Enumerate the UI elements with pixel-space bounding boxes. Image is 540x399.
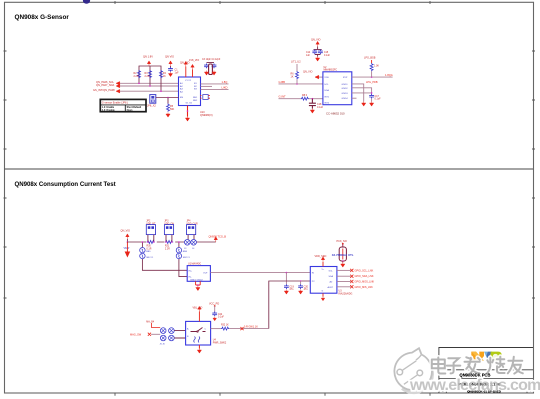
svg-text:PWR_SW02: PWR_SW02 bbox=[213, 341, 227, 344]
wire pwr to cap bbox=[170, 66, 172, 67]
resistor block RB1 bbox=[203, 95, 208, 100]
junction EN/R5 bbox=[167, 97, 169, 99]
svg-text:C15: C15 bbox=[324, 52, 329, 54]
wire power to rail bbox=[126, 239, 128, 242]
svg-text:1.8Q: 1.8Q bbox=[222, 80, 228, 84]
svg-text:47n: 47n bbox=[304, 288, 309, 291]
table G-Sensor enable bbox=[100, 99, 146, 111]
wire U2 GND1 bbox=[352, 84, 364, 102]
net arrow SDA bbox=[116, 84, 120, 88]
svg-text:QN 1.8V: QN 1.8V bbox=[143, 55, 153, 59]
wire U3 ALERT bbox=[337, 286, 351, 288]
ground under U4 bbox=[197, 349, 201, 354]
power QN_VIO cap branch bbox=[169, 61, 172, 66]
svg-text:LPG_PDB: LPG_PDB bbox=[366, 81, 378, 84]
svg-text:MMA8652FC: MMA8652FC bbox=[324, 69, 338, 72]
svg-text:G-sensor Enable (JP8 ): G-sensor Enable (JP8 ) bbox=[102, 102, 128, 105]
svg-text:U2: U2 bbox=[324, 67, 328, 69]
wire INT bbox=[120, 90, 179, 92]
test loop J6 bbox=[176, 253, 181, 258]
capacitor C1 bbox=[168, 67, 173, 72]
svg-text:0.1uF: 0.1uF bbox=[218, 317, 224, 319]
resistor R8 bbox=[301, 97, 309, 100]
svg-text:QN_VIO: QN_VIO bbox=[180, 62, 190, 65]
svg-text:0.1uF: 0.1uF bbox=[317, 106, 324, 109]
svg-text:PV: PV bbox=[312, 281, 315, 283]
power VBAT_NO above U4 bbox=[198, 312, 200, 322]
watermark logo circle bbox=[394, 348, 432, 390]
svg-text:QN908x G-Sensor: QN908x G-Sensor bbox=[15, 14, 70, 21]
svg-text:1uF: 1uF bbox=[175, 72, 180, 75]
svg-text:SDA: SDA bbox=[324, 89, 329, 92]
pull-up rail wire bbox=[139, 66, 161, 91]
rail wire bbox=[127, 241, 215, 243]
wire second input to U3 bbox=[269, 281, 311, 329]
crystal Y1 with load caps bbox=[207, 62, 215, 64]
svg-text:GND2: GND2 bbox=[342, 88, 349, 90]
svg-text:SCL: SCL bbox=[324, 84, 329, 86]
svg-text:1V8_VIO: 1V8_VIO bbox=[189, 59, 199, 62]
svg-text:0.1uF: 0.1uF bbox=[375, 98, 382, 101]
svg-text:A4: A4 bbox=[180, 90, 183, 93]
resistor R2 bbox=[138, 70, 141, 78]
svg-text:R8 0: R8 0 bbox=[302, 94, 308, 97]
svg-text:R30: R30 bbox=[147, 246, 152, 248]
ground under C1 bbox=[168, 72, 172, 77]
svg-text:Short:Default: Short:Default bbox=[127, 106, 142, 109]
svg-text:G1 G2: G1 G2 bbox=[186, 103, 193, 105]
ground under C22 bbox=[213, 317, 217, 321]
svg-text:J5 J6: J5 J6 bbox=[160, 343, 166, 345]
svg-text:2.2K: 2.2K bbox=[145, 75, 150, 78]
svg-text:2-3: Disable: 2-3: Disable bbox=[102, 110, 116, 112]
svg-text:0.1R: 0.1R bbox=[147, 248, 152, 250]
ground under crystal caps bbox=[204, 71, 208, 76]
purple dot artifact top edge bbox=[83, 0, 90, 4]
svg-text:J3: J3 bbox=[184, 248, 187, 250]
svg-text:1K: 1K bbox=[291, 76, 294, 79]
svg-text:1-2: Enable: 1-2: Enable bbox=[102, 107, 115, 109]
svg-text:RB5: RB5 bbox=[146, 251, 151, 253]
wire IC right B2 bbox=[201, 85, 213, 87]
svg-text:GND1 GND2: GND1 GND2 bbox=[190, 280, 204, 282]
wires jacks to U4 bbox=[174, 331, 185, 338]
watermark glyph zi bbox=[447, 358, 461, 373]
svg-text:QN_VIO: QN_VIO bbox=[311, 39, 321, 42]
jack J7 bbox=[160, 335, 166, 341]
capacitor C17 bbox=[369, 94, 374, 99]
frame zone tick marks top bbox=[115, 1, 430, 4]
wire IC right B3 bbox=[201, 88, 229, 90]
svg-text:Open: Open bbox=[127, 110, 133, 112]
svg-text:B2: B2 bbox=[194, 86, 197, 88]
junction C19 bbox=[286, 272, 288, 274]
svg-text:MA_B4: MA_B4 bbox=[146, 320, 155, 323]
svg-text:R32 1K: R32 1K bbox=[221, 325, 229, 327]
svg-text:SCL: SCL bbox=[329, 270, 334, 272]
wire R32 to X bbox=[229, 328, 268, 330]
svg-text:A1: A1 bbox=[180, 82, 183, 85]
ground under GND1 bbox=[362, 102, 366, 107]
IC U10 bottom ground stem bbox=[187, 106, 189, 117]
svg-text:QN908 TCG_B: QN908 TCG_B bbox=[209, 234, 227, 238]
svg-text:VBAT: VBAT bbox=[124, 247, 131, 250]
svg-text:OUT: OUT bbox=[203, 273, 208, 275]
svg-text:1uF: 1uF bbox=[306, 55, 311, 57]
resistor R4 bbox=[160, 70, 163, 78]
title block row line 2 bbox=[439, 377, 533, 379]
svg-text:C: C bbox=[205, 329, 207, 331]
watermark logo node circle 2 bbox=[417, 370, 423, 376]
svg-text:QN_PA07_SDA: QN_PA07_SDA bbox=[96, 83, 115, 87]
resistor R31 on rail bbox=[165, 241, 173, 244]
svg-text:VCC_PD: VCC_PD bbox=[209, 302, 219, 305]
svg-text:RE1: RE1 bbox=[193, 97, 198, 99]
ground under C14 C15 bbox=[316, 57, 320, 62]
svg-text:IN-: IN- bbox=[189, 277, 192, 279]
svg-text:VDD: VDD bbox=[324, 77, 329, 79]
svg-text:56K: 56K bbox=[170, 108, 175, 111]
capacitor C22 bbox=[212, 312, 217, 317]
switch symbol inside U4 bbox=[191, 328, 206, 332]
svg-text:QN VIO: QN VIO bbox=[165, 55, 174, 59]
IC U4 power switch bbox=[186, 321, 211, 345]
jack J8 bbox=[169, 335, 175, 341]
svg-text:0.R GW1.1K: 0.R GW1.1K bbox=[244, 325, 258, 328]
svg-text:GND4: GND4 bbox=[342, 98, 349, 100]
svg-text:QN908x Consumption Current Tes: QN908x Consumption Current Test bbox=[15, 181, 116, 188]
jumper JP8 bbox=[150, 95, 156, 104]
watermark glyph dian bbox=[432, 358, 446, 374]
svg-text:www.elecfans.com: www.elecfans.com bbox=[409, 377, 540, 394]
wire R8 to U2 bbox=[309, 98, 323, 100]
jack J5 bbox=[160, 328, 166, 334]
svg-text:C22: C22 bbox=[218, 314, 223, 316]
svg-text:A: A bbox=[187, 328, 189, 331]
svg-text:INT2: INT2 bbox=[324, 102, 330, 104]
junction SDA/R3 bbox=[149, 85, 151, 87]
IC U4 bottom ground bbox=[198, 345, 200, 349]
NXP logo X blue bbox=[484, 352, 492, 361]
current jack J3 bbox=[185, 240, 191, 246]
svg-text:VBL_NO: VBL_NO bbox=[193, 306, 203, 309]
svg-text:RB6: RB6 bbox=[183, 251, 188, 253]
IC U1 current sense amp bbox=[187, 266, 210, 282]
capacitor C14 bbox=[314, 49, 322, 51]
svg-text:SDA: SDA bbox=[329, 275, 334, 278]
svg-text:A0: A0 bbox=[330, 281, 333, 284]
frame zone tick marks left bbox=[4, 51, 7, 298]
wire chain2 from rail bbox=[179, 242, 187, 277]
jack J6 bbox=[169, 328, 175, 334]
svg-text:1.0K: 1.0K bbox=[374, 65, 379, 68]
svg-text:32.768KHZ XTL: 32.768KHZ XTL bbox=[332, 253, 354, 257]
svg-text:G.BB: G.BB bbox=[279, 80, 286, 84]
frame zone tick marks right bbox=[532, 51, 535, 298]
svg-text:QN9080(X): QN9080(X) bbox=[200, 114, 213, 117]
watermark logo node circle 1 bbox=[397, 369, 403, 375]
svg-text:V+: V+ bbox=[322, 269, 325, 271]
svg-text:SRC#1: SRC#1 bbox=[183, 257, 191, 259]
power QN_VIO decoupling bbox=[316, 41, 319, 46]
svg-text:GND3: GND3 bbox=[342, 93, 349, 95]
svg-text:EN: EN bbox=[180, 97, 183, 99]
svg-text:JP8_X2: JP8_X2 bbox=[147, 105, 156, 108]
power VDD_SEN above U3 bbox=[322, 262, 324, 267]
svg-text:INT1: INT1 bbox=[324, 97, 330, 99]
svg-text:GND1: GND1 bbox=[342, 84, 349, 86]
wire SDA bbox=[120, 85, 179, 87]
NXP logo N orange bbox=[471, 352, 484, 361]
svg-text:LPG_BSB: LPG_BSB bbox=[364, 57, 376, 60]
svg-text:2.2K: 2.2K bbox=[134, 75, 139, 78]
watermark logo link line 2 bbox=[404, 375, 417, 384]
svg-text:0.1uF: 0.1uF bbox=[324, 55, 330, 57]
NXP logo P green bbox=[491, 352, 502, 361]
power QN_1V8 above IC pin V2 bbox=[192, 70, 194, 78]
svg-text:LIT1_U2: LIT1_U2 bbox=[291, 61, 301, 64]
svg-text:A3: A3 bbox=[180, 88, 183, 91]
svg-text:MAG_SW: MAG_SW bbox=[130, 333, 142, 336]
svg-text:GPIO_MIS_LNK: GPIO_MIS_LNK bbox=[355, 286, 374, 289]
wire SCL bbox=[120, 82, 179, 84]
IC U2 MMA8652 bbox=[323, 72, 352, 105]
svg-text:B: B bbox=[187, 336, 189, 338]
resistor R5 bbox=[167, 98, 169, 104]
title block vertical divider size bbox=[445, 387, 447, 393]
svg-text:IN: IN bbox=[312, 273, 315, 275]
resistor R30 on rail bbox=[147, 241, 155, 244]
wire MAG_SW to jacks bbox=[151, 333, 160, 335]
svg-text:PCK_NO: PCK_NO bbox=[337, 240, 347, 243]
IC U3 ADC bbox=[310, 267, 337, 294]
svg-text:QN_VIO: QN_VIO bbox=[303, 70, 313, 73]
ground under C19 bbox=[284, 290, 288, 295]
watermark glyphs bbox=[432, 357, 523, 374]
wire JP8 to EN pin bbox=[156, 97, 179, 99]
wire U2 GND2 bbox=[352, 88, 372, 94]
wire U3 SCL bbox=[337, 269, 351, 271]
svg-text:2.2R: 2.2R bbox=[165, 248, 170, 250]
junction C20 bbox=[300, 280, 302, 282]
svg-text:GPIO_MOS_LNK: GPIO_MOS_LNK bbox=[355, 281, 375, 284]
junction INT/R4 bbox=[160, 90, 162, 92]
junction C18 bbox=[312, 98, 314, 100]
wire U2 GND3 bbox=[352, 92, 372, 94]
svg-text:A2: A2 bbox=[180, 85, 183, 88]
svg-text:G: G bbox=[322, 291, 324, 293]
title block vertical divider rev bbox=[526, 387, 528, 393]
svg-text:SRC#1: SRC#1 bbox=[146, 257, 154, 259]
capacitor C18 polarized bbox=[309, 99, 316, 109]
watermark glyph fa bbox=[465, 357, 480, 373]
capacitor C19 bbox=[285, 273, 287, 285]
svg-text:VDD_SEN: VDD_SEN bbox=[315, 255, 327, 258]
crystal Y2 bbox=[339, 247, 346, 261]
wire U3 A0 bbox=[337, 281, 351, 283]
wire chain1 from rail bbox=[142, 242, 187, 270]
svg-text:INA226AIDG: INA226AIDG bbox=[339, 292, 353, 295]
ground under C18 bbox=[310, 109, 314, 114]
svg-text:V1 V2: V1 V2 bbox=[185, 80, 192, 82]
ground under crystal Y2 bbox=[341, 263, 345, 268]
watermark logo link line 1 bbox=[402, 361, 416, 371]
svg-text:1K: 1K bbox=[163, 75, 166, 78]
svg-text:1.8QA: 1.8QA bbox=[385, 73, 393, 77]
svg-text:RE2: RE2 bbox=[193, 100, 198, 102]
watermark logo circle shadow bbox=[402, 360, 432, 393]
junction rail left bbox=[127, 241, 129, 243]
power QN_VIO above IC pin V1 bbox=[185, 67, 187, 78]
svg-text:J4: J4 bbox=[192, 248, 195, 250]
svg-text:GS_INT/QN_PA08: GS_INT/QN_PA08 bbox=[93, 88, 115, 92]
svg-text:47n: 47n bbox=[289, 288, 294, 291]
IC U10 QN9080 bbox=[179, 77, 201, 106]
junction R6/SCL bbox=[296, 83, 298, 85]
svg-text:C3 12pF C4 12pF: C3 12pF C4 12pF bbox=[202, 59, 221, 61]
resistor R6 bbox=[296, 64, 298, 71]
ground under C20 bbox=[299, 290, 303, 295]
junction VDD branch bbox=[371, 76, 373, 78]
wire U1 OUT to U3 bbox=[210, 272, 310, 274]
svg-text:BYP: BYP bbox=[343, 77, 348, 79]
title block row line 3 bbox=[439, 386, 533, 388]
wire U3 SDA bbox=[337, 275, 351, 277]
ground under C17 bbox=[370, 102, 374, 107]
svg-text:LIKD: LIKD bbox=[222, 86, 228, 90]
capacitor C20 bbox=[300, 281, 302, 284]
wire INT to R8 bbox=[279, 98, 301, 100]
svg-text:IN+: IN+ bbox=[189, 270, 193, 272]
ground under IC U10 bbox=[185, 117, 189, 122]
IC U3 bottom ground bbox=[322, 293, 324, 297]
wire U4 out bbox=[211, 328, 221, 330]
wire U2 VDD out right bbox=[352, 76, 393, 78]
svg-text:QN_VIO: QN_VIO bbox=[121, 230, 131, 233]
svg-text:CC-A8652 010: CC-A8652 010 bbox=[326, 112, 345, 116]
title block row line 1 bbox=[439, 369, 533, 371]
wire U2 GND4 bbox=[352, 97, 357, 99]
current jack J4 bbox=[191, 240, 197, 246]
resistor R3 bbox=[149, 70, 152, 78]
test loop J1 bbox=[140, 248, 145, 253]
net arrow SCL bbox=[116, 82, 120, 86]
watermark glyph you bbox=[508, 357, 523, 374]
IC U1 ground stems bbox=[196, 281, 201, 286]
title block outer box bbox=[439, 348, 533, 394]
resistor R7 branch up bbox=[371, 71, 373, 77]
svg-text:B1: B1 bbox=[194, 83, 197, 85]
svg-text:B3: B3 bbox=[194, 89, 197, 91]
svg-text:MAX40C: MAX40C bbox=[192, 263, 202, 266]
power QN_VIO pullup rail bbox=[147, 61, 150, 66]
svg-text:GPIO_SDA_LNK: GPIO_SDA_LNK bbox=[355, 275, 374, 278]
svg-text:GPIO_SCL_LNK: GPIO_SCL_LNK bbox=[355, 269, 374, 272]
ground under U1 bbox=[196, 286, 200, 291]
svg-text:C14: C14 bbox=[306, 52, 311, 54]
capacitor C15 bbox=[318, 50, 323, 55]
test loop J2 bbox=[140, 253, 145, 258]
ground under R5 bbox=[166, 113, 170, 118]
wire IC right B1 bbox=[201, 83, 229, 85]
test loop J5 bbox=[176, 248, 181, 253]
frame zone tick marks bottom bbox=[115, 393, 430, 396]
section divider line bbox=[5, 168, 534, 170]
resistor R32 bbox=[221, 327, 229, 330]
wire SCL to U2 bbox=[279, 83, 323, 85]
net arrow INT bbox=[116, 89, 120, 93]
svg-text:ALRT: ALRT bbox=[328, 286, 334, 289]
junction SCL/R2 bbox=[138, 83, 140, 85]
svg-text:R31: R31 bbox=[165, 246, 170, 248]
svg-text:G.INT: G.INT bbox=[279, 95, 287, 99]
watermark glyph shao bbox=[487, 357, 505, 374]
